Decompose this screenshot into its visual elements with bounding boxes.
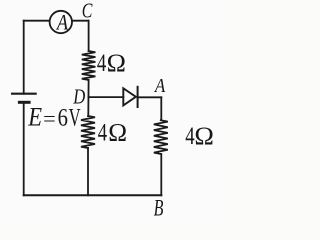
svg-text:4: 4 <box>97 50 107 77</box>
svg-text:Ω: Ω <box>107 50 126 77</box>
svg-text:C: C <box>82 0 93 23</box>
svg-text:4: 4 <box>98 119 108 146</box>
svg-text:B: B <box>154 195 164 219</box>
svg-text:V: V <box>69 105 81 132</box>
svg-text:A: A <box>153 75 166 97</box>
svg-text:=: = <box>43 106 56 130</box>
svg-text:Ω: Ω <box>108 119 127 146</box>
svg-text:Ω: Ω <box>194 123 214 150</box>
svg-text:A: A <box>55 10 68 35</box>
svg-text:E: E <box>27 103 42 132</box>
svg-text:6: 6 <box>58 105 68 132</box>
